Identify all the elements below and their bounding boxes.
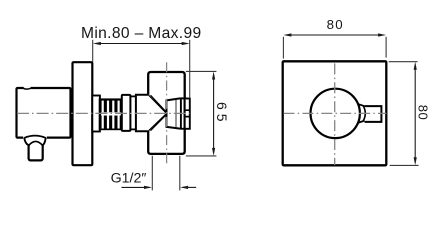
extension line right (knob end): [189, 40, 191, 98]
knob taper cone: [357, 104, 364, 123]
svg-text:Min.80 – Max.99: Min.80 – Max.99: [81, 25, 202, 42]
outlet fillet arc: [29, 141, 43, 145]
dimension 80 (right): [389, 61, 418, 63]
threaded stem (solid block with slots): [99, 98, 122, 130]
svg-text:G1/2″: G1/2″: [111, 171, 147, 187]
wall flange plate: [73, 62, 93, 165]
extension line left (wall face): [92, 40, 94, 62]
knob knurled tip: [185, 99, 190, 129]
knob face line: [180, 98, 182, 129]
outlet flare left edge: [24, 138, 28, 146]
svg-text:80: 80: [327, 17, 344, 32]
body top notch: [24, 87, 31, 90]
knob cap arc: [363, 106, 365, 121]
dimension 65: [186, 70, 217, 72]
bottom port extension lines: [152, 156, 180, 191]
valve body (wall elbow housing): [17, 88, 71, 138]
svg-text:80: 80: [416, 105, 431, 120]
knob rim connectors: [181, 98, 185, 129]
waist groove: [130, 96, 136, 129]
front square plate: [283, 61, 387, 165]
neck hub (opens into T body): [136, 95, 148, 132]
horizontal centerline left view: [17, 112, 190, 114]
V chamfer cone (double lines, upper): [148, 95, 166, 113]
vertical centerline right view: [334, 63, 336, 165]
outlet spout dome arc: [23, 136, 47, 139]
dimension G1/2 arrows: [122, 186, 197, 188]
vertical centerline of T body: [166, 62, 168, 164]
horizontal centerline right view: [284, 112, 387, 114]
outlet flare right edge: [43, 138, 46, 146]
handle circle: [311, 89, 360, 138]
collar nut: [122, 95, 131, 131]
boss between plate and thread: [92, 96, 100, 132]
outlet cylinder: [29, 145, 43, 161]
T cartridge body: [148, 72, 185, 154]
knob inner knurl line: [175, 100, 177, 128]
V chamfer cone (double lines, lower): [148, 114, 166, 131]
svg-text:65: 65: [214, 102, 230, 126]
knob tip ridges: [185, 110, 190, 116]
knob front rect: [365, 106, 382, 122]
handle knob side: [167, 98, 181, 129]
